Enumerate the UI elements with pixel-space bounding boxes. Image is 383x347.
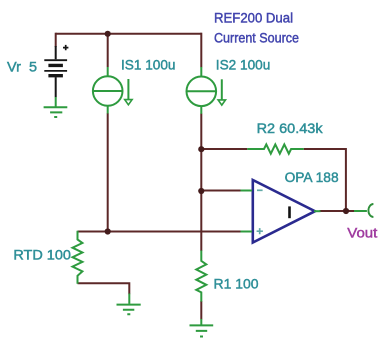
wire op-amp output to Vout node <box>320 210 355 212</box>
svg-text:RTD 100: RTD 100 <box>13 248 71 263</box>
ground below RTD <box>117 294 141 315</box>
wire green lead noninverting input <box>241 231 253 233</box>
wire noninverting input run from RTD node <box>78 231 242 233</box>
junction node output <box>343 208 349 214</box>
junction node battery/IS1/IS2 <box>105 31 111 37</box>
svg-text:Vr 5: Vr 5 <box>7 60 37 75</box>
svg-text:R1 100: R1 100 <box>214 276 259 291</box>
svg-text:REF200 Dual: REF200 Dual <box>214 11 293 26</box>
resistor R2 60.43k <box>247 144 303 153</box>
wire battery positive terminal riser <box>55 33 57 47</box>
junction node RTD tap <box>105 228 111 234</box>
svg-text:IS2 100u: IS2 100u <box>216 57 270 72</box>
svg-text:OPA 188: OPA 188 <box>285 170 339 185</box>
ground below battery <box>44 97 68 117</box>
wire RTD bottom to ground <box>78 283 130 294</box>
resistor R1 100 <box>196 251 206 302</box>
wire green lead inverting input <box>241 190 253 192</box>
svg-text:IS1 100u: IS1 100u <box>121 57 176 72</box>
current source IS1 100u <box>93 67 132 114</box>
wire IS1 branch lower <box>107 113 109 231</box>
wire IS2 branch lower through R2 and minus nodes to R1 <box>200 114 202 252</box>
wire IS2 branch upper <box>200 33 202 68</box>
junction node R2 tap <box>198 146 204 152</box>
wire IS1 branch upper <box>107 34 109 67</box>
wire R2 left lead run <box>201 148 247 150</box>
resistor RTD 100 <box>73 231 83 284</box>
output terminal Vout <box>354 204 373 217</box>
ground below R1 <box>190 319 214 337</box>
wire green lead output <box>314 210 321 212</box>
svg-text:Vout: Vout <box>347 226 377 241</box>
svg-text:Current Source: Current Source <box>214 30 299 45</box>
wire top horizontal bus from battery to IS2 <box>56 33 202 35</box>
junction node inverting tap <box>198 188 204 194</box>
current source IS2 100u <box>187 67 226 114</box>
svg-text:R2 60.43k: R2 60.43k <box>257 121 323 136</box>
op-amp U1 OPA188 <box>253 180 315 243</box>
wire R2 right run and feedback drop <box>304 149 346 211</box>
wire inverting input run <box>201 190 241 192</box>
wire R1 bottom to ground <box>200 301 202 319</box>
battery V1 value Vr 5 <box>44 45 68 97</box>
